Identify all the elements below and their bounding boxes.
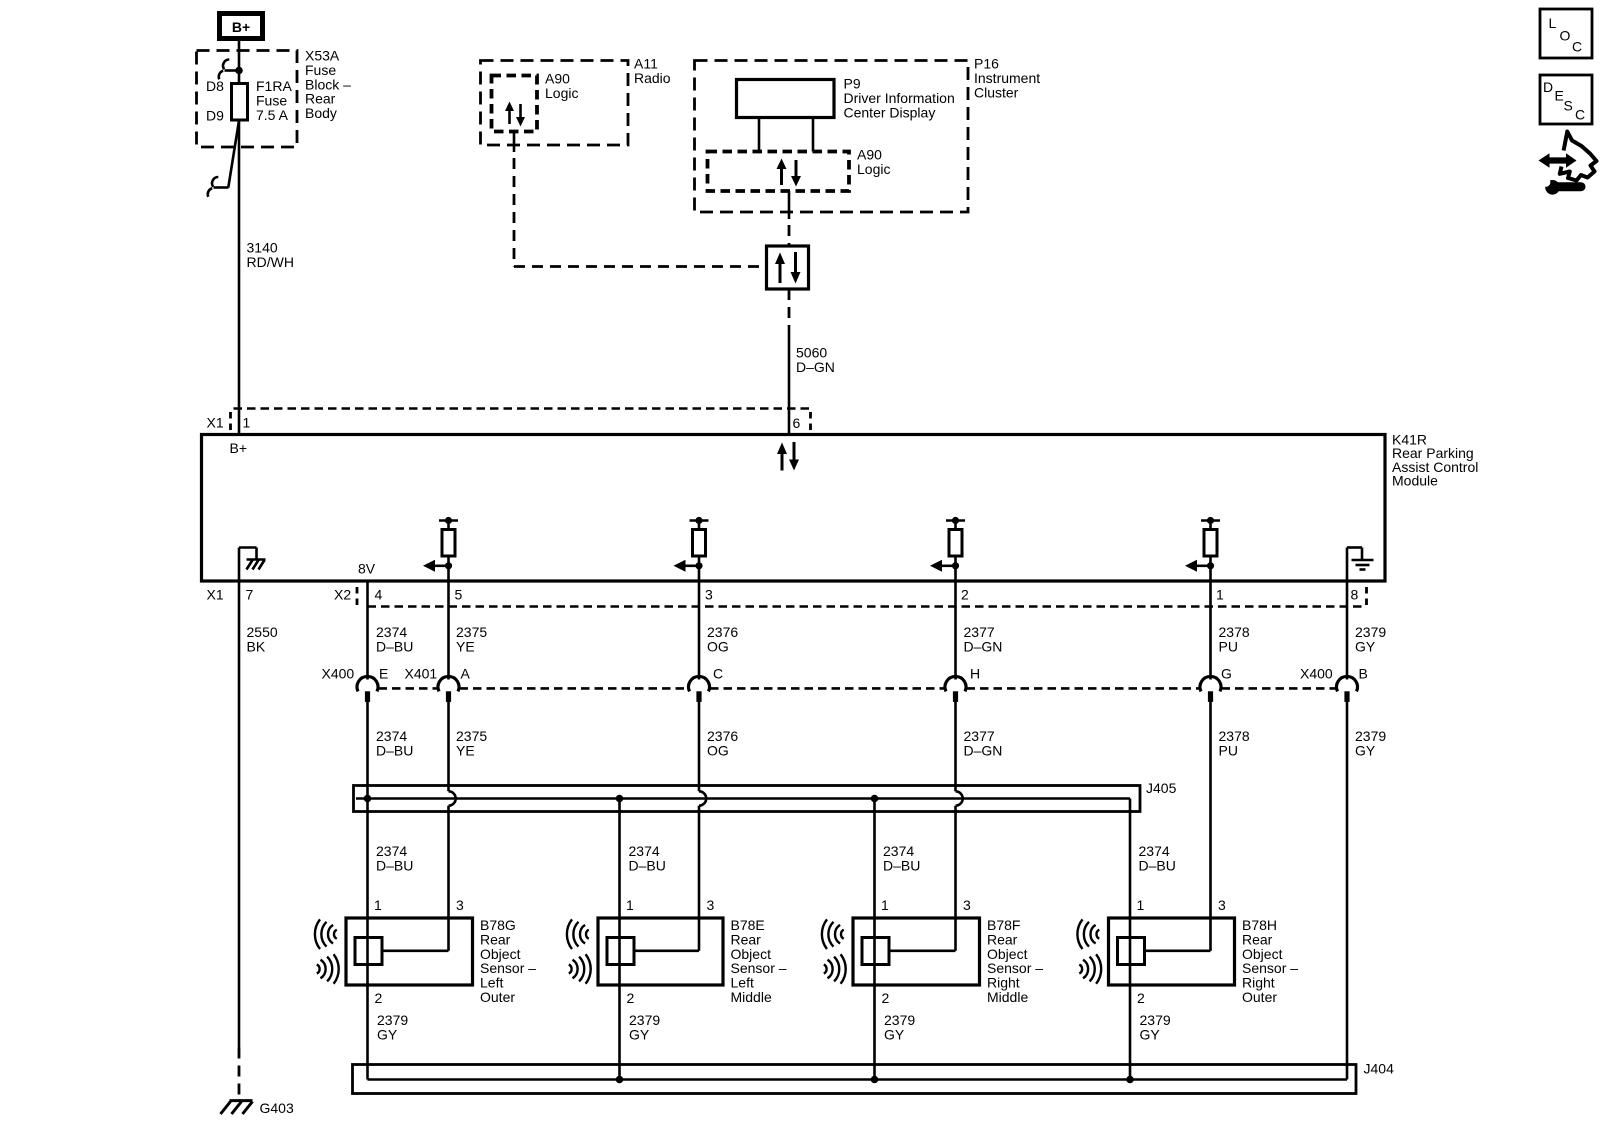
svg-text:BK: BK (247, 638, 266, 654)
svg-text:D–BU: D–BU (376, 638, 413, 654)
wire segment module to connector at x=699 (698, 581, 701, 680)
svg-text:3: 3 (963, 897, 971, 913)
label A11 Radio (634, 56, 671, 86)
splice pack J405 outline (354, 786, 1141, 812)
node B+ battery positive voltage box (220, 14, 263, 39)
sensor B78G transducer square (355, 938, 382, 965)
sensor B78F transducer square (862, 938, 889, 965)
svg-text:H: H (970, 666, 980, 682)
wire sensor B78G pin 1 through pin 2 (366, 918, 369, 985)
wire segment module to connector at x=1347 (1346, 581, 1349, 680)
svg-text:1: 1 (1216, 587, 1224, 603)
svg-text:3: 3 (1218, 897, 1226, 913)
wire label 2374 D-BU (sensor feed) (629, 843, 666, 873)
serial data up arrow inside cluster A90 (777, 159, 787, 186)
signal arrow at resistor R4 (pin X2-1) (1185, 560, 1214, 572)
svg-text:G: G (1221, 666, 1232, 682)
svg-text:S: S (1564, 98, 1573, 114)
wire 2374 D-BU branch J405 to sensor B78H pin 1 (1129, 799, 1132, 919)
ground symbol inside module at pin X2-8 (1347, 548, 1374, 582)
svg-text:5: 5 (455, 587, 463, 603)
fuse block X53A dashed outline (197, 51, 298, 148)
junction dot J404 at sensor B78H (1126, 1076, 1134, 1084)
label B78H Rear Object Sensor (1242, 917, 1298, 1005)
wire B+ to fuse F1RA (238, 41, 241, 84)
component label X53A Fuse Block - Rear Body (305, 48, 351, 122)
wire 2379 GY from connector B down to splice pack J404 (1346, 702, 1349, 1080)
display P9 Driver Information Center Display (737, 80, 835, 118)
wire 2550 BK dashed continuation to G403 (238, 1048, 241, 1101)
wire 2379 GY sensor B78E pin 2 to J404 (618, 985, 621, 1080)
wire 2378 PU from connector G down to sensor B78H pin 3 (1209, 702, 1212, 919)
svg-text:X2: X2 (334, 587, 351, 603)
wire sensor B78E pin 3 internal lead (634, 918, 699, 951)
svg-text:D–BU: D–BU (1139, 857, 1176, 873)
wire label 2379 GY at B78G (377, 1012, 408, 1042)
wire sensor B78E pin 1 through pin 2 (618, 918, 621, 985)
resistor R2 (pin X2-3) internal pull-up (690, 517, 709, 581)
svg-text:D–BU: D–BU (629, 857, 666, 873)
svg-text:7: 7 (246, 587, 254, 603)
wire label 2378 (1219, 624, 1250, 654)
sonar waves of sensor B78F (822, 919, 846, 983)
icon DESC box (1540, 75, 1592, 124)
icon diagnostic connector outline (1560, 132, 1597, 181)
splice pack J404 outline (353, 1065, 1357, 1094)
wire segment module to connector at x=448.5 (447, 581, 450, 680)
svg-text:OG: OG (707, 742, 729, 758)
svg-text:1: 1 (1137, 897, 1145, 913)
svg-text:X400: X400 (322, 666, 355, 682)
wire segment module to connector at x=1210.5 (1209, 581, 1212, 680)
wire radio serial data stub (solid) (513, 132, 516, 153)
svg-text:J405: J405 (1146, 780, 1177, 796)
connector X2 separator (356, 587, 359, 606)
wire segment module to connector at x=955.5 (954, 581, 957, 680)
svg-text:B+: B+ (232, 19, 250, 35)
up arrow inside serial data box (775, 253, 785, 284)
svg-text:Logic: Logic (545, 85, 578, 101)
svg-text:1: 1 (881, 897, 889, 913)
wire label 5060 D-GN (796, 345, 835, 375)
pin 6 separator (809, 412, 812, 431)
pin 8 separator (1365, 587, 1368, 606)
svg-text:D8: D8 (206, 78, 224, 94)
wire label 2375 (456, 624, 487, 654)
svg-text:8: 8 (1351, 587, 1359, 603)
sonar waves of sensor B78E (567, 919, 591, 983)
svg-text:PU: PU (1219, 638, 1238, 654)
svg-text:E: E (379, 666, 388, 682)
svg-text:OG: OG (707, 638, 729, 654)
wire label 2376 (707, 624, 738, 654)
sensor B78E transducer square (607, 938, 634, 965)
svg-text:X1: X1 (207, 415, 224, 431)
svg-text:X401: X401 (405, 666, 438, 682)
svg-text:GY: GY (884, 1026, 905, 1042)
signal arrow at resistor R3 (pin X2-2) (930, 560, 959, 572)
sonar waves of sensor B78G (315, 919, 339, 983)
wire 2374 D-BU branch J405 to sensor B78E pin 1 (618, 799, 621, 919)
wire fuse output down to module pin X1-1 (circuit 3140 RD/WH) (238, 120, 241, 435)
wire 2379 GY sensor B78F pin 2 to J404 (873, 985, 876, 1080)
radio A11 dashed outline (481, 61, 629, 146)
dashed in-line connector harness segment E-A (379, 687, 438, 690)
sonar waves of sensor B78H (1077, 919, 1101, 983)
svg-text:1: 1 (374, 897, 382, 913)
wire sensor B78H pin 3 internal lead (1145, 918, 1211, 951)
wire label 2374 D-BU (sensor feed) (376, 843, 413, 873)
wire cluster serial data dashed down to splice box (788, 191, 791, 219)
wire P9 left pin to A90 logic (758, 118, 761, 152)
svg-text:4: 4 (375, 587, 383, 603)
svg-text:Middle: Middle (987, 989, 1028, 1005)
svg-text:GY: GY (1140, 1026, 1161, 1042)
svg-text:X1: X1 (207, 587, 224, 603)
svg-text:D9: D9 (206, 108, 224, 124)
connector terminal A of X401 (438, 676, 459, 701)
value label F1RA Fuse 7.5 A (256, 78, 292, 123)
wire radio serial data dashed down (513, 158, 516, 267)
wire 2377 D-GN to sensor B78F pin 3 (hops over J405 lead) (956, 702, 963, 919)
svg-text:Outer: Outer (1242, 989, 1277, 1005)
wire label 3140 RD/WH (247, 240, 294, 270)
junction dot J404 at sensor B78E (616, 1076, 624, 1084)
wire segment module to connector at x=367.5 (366, 581, 369, 680)
label K41R Rear Parking Assist Control Module (1392, 431, 1478, 488)
svg-text:D: D (1543, 79, 1553, 95)
junction dot J404 at sensor B78F (871, 1076, 879, 1084)
svg-text:6: 6 (793, 415, 801, 431)
wire sensor B78F pin 1 through pin 2 (873, 918, 876, 985)
wire sensor B78G pin 3 internal lead (382, 918, 449, 951)
svg-text:GY: GY (377, 1026, 398, 1042)
svg-text:X400: X400 (1300, 666, 1333, 682)
svg-text:Logic: Logic (857, 161, 890, 177)
splice pack J404 common lead (368, 1078, 1348, 1081)
wire serial data dashed below box (788, 289, 791, 326)
icon diagnostic double arrow (1539, 153, 1577, 168)
ground symbol inside module at pin X1-7 (239, 548, 266, 582)
svg-text:Radio: Radio (634, 70, 671, 86)
svg-text:E: E (1555, 88, 1564, 104)
wire label 2375 (below connector) (456, 728, 487, 758)
serial data up arrow inside radio A90 (505, 102, 514, 125)
svg-text:D–GN: D–GN (796, 359, 835, 375)
terminal clip D9 (lower fuse terminal, diagonal) (208, 121, 239, 197)
connector terminal H of X401 (945, 676, 966, 701)
wire P9 right pin to A90 logic (812, 118, 815, 152)
wire label 2550 BK (247, 624, 278, 654)
wire label 2374 (below connector) (376, 728, 413, 758)
wire label 2374 (376, 624, 413, 654)
connector terminal G of X401 (1200, 676, 1221, 701)
svg-text:3: 3 (705, 587, 713, 603)
label B78F Rear Object Sensor (987, 917, 1043, 1005)
serial data down arrow inside module at pin 6 (789, 442, 799, 471)
svg-text:D–BU: D–BU (376, 742, 413, 758)
splice pack J405 common lead (356, 797, 1130, 800)
connector terminal B of X400 (1337, 676, 1358, 701)
svg-text:Outer: Outer (480, 989, 515, 1005)
svg-text:D–BU: D–BU (883, 857, 920, 873)
connector terminal E of X400 (357, 676, 378, 701)
dashed in-line connector harness segment C-H (710, 687, 945, 690)
sensor B78H transducer square (1118, 938, 1145, 965)
junction dot J405 at sensor B78G branch (364, 795, 372, 803)
svg-text:A: A (461, 666, 471, 682)
svg-text:7.5 A: 7.5 A (256, 107, 289, 123)
wire label 2379 GY at B78H (1140, 1012, 1171, 1042)
fuse F1RA 7.5A body (232, 84, 248, 121)
svg-text:C: C (1572, 39, 1582, 55)
svg-text:2: 2 (375, 990, 383, 1006)
serial data junction box (767, 246, 809, 289)
wire label 2374 D-BU (sensor feed) (883, 843, 920, 873)
svg-text:YE: YE (456, 638, 475, 654)
down arrow inside serial data box (791, 252, 801, 284)
resistor R1 (pin X2-5) internal pull-up (439, 517, 458, 581)
wire label 2379 GY at B78F (884, 1012, 915, 1042)
terminal clip D8 (upper fuse terminal) (219, 59, 243, 79)
svg-text:Cluster: Cluster (974, 84, 1019, 100)
svg-text:J404: J404 (1364, 1061, 1395, 1077)
svg-text:8V: 8V (358, 561, 376, 577)
wire radio serial data dashed right to splice box (514, 265, 767, 268)
svg-text:C: C (1575, 107, 1585, 123)
svg-text:PU: PU (1219, 742, 1238, 758)
wire label 2379 (1355, 624, 1386, 654)
label A90 Logic (radio) (545, 71, 578, 101)
wire label 2378 (below connector) (1219, 728, 1250, 758)
svg-text:3: 3 (456, 897, 464, 913)
svg-text:Body: Body (305, 105, 337, 121)
wire 2550 BK from pin X1-7 down (solid part) (238, 581, 241, 1048)
svg-text:D–GN: D–GN (964, 742, 1003, 758)
dashed in-line connector harness segment H-G (967, 687, 1200, 690)
connector terminal C of X401 (689, 676, 710, 701)
label P9 Driver Information Center Display (844, 76, 955, 121)
wire label 2377 (below connector) (964, 728, 1003, 758)
svg-text:1: 1 (626, 897, 634, 913)
wire sensor B78H pin 1 through pin 2 (1129, 918, 1132, 985)
wire 2379 GY sensor B78G pin 2 to J404 (366, 985, 369, 1080)
svg-text:2: 2 (961, 587, 969, 603)
svg-text:B: B (1359, 666, 1368, 682)
sensor B78G Rear Object Sensor outline (346, 918, 473, 985)
svg-text:O: O (1560, 28, 1571, 44)
connector X1 separator (top left) (229, 412, 232, 431)
svg-text:YE: YE (456, 742, 475, 758)
wire label 2374 D-BU (sensor feed) (1139, 843, 1176, 873)
wire sensor B78F pin 3 internal lead (889, 918, 956, 951)
svg-text:2: 2 (882, 990, 890, 1006)
label B78E Rear Object Sensor (731, 917, 787, 1005)
wire cluster serial data dashed segment (788, 225, 791, 246)
serial data up arrow inside module at pin 6 (777, 443, 787, 471)
svg-text:G403: G403 (260, 1100, 294, 1116)
junction dot J405 at sensor B78E branch (616, 795, 624, 803)
svg-text:Middle: Middle (731, 989, 772, 1005)
signal arrow at resistor R2 (pin X2-3) (674, 560, 703, 572)
svg-text:3: 3 (707, 897, 715, 913)
resistor R4 (pin X2-1) internal pull-up (1201, 517, 1220, 581)
label B78G Rear Object Sensor (480, 917, 536, 1005)
resistor R3 (pin X2-2) internal pull-up (946, 517, 965, 581)
junction dot J405 at sensor B78F branch (871, 795, 879, 803)
wire label 2377 (964, 624, 1003, 654)
logic block A90 inside cluster (708, 152, 850, 192)
svg-text:GY: GY (1355, 638, 1376, 654)
svg-text:B+: B+ (230, 440, 248, 456)
svg-text:D–BU: D–BU (376, 857, 413, 873)
ground G403 symbol (221, 1101, 253, 1114)
svg-text:Module: Module (1392, 473, 1438, 489)
svg-text:GY: GY (629, 1026, 650, 1042)
icon wrench (1541, 178, 1581, 195)
serial data down arrow inside cluster A90 (791, 160, 801, 187)
svg-text:GY: GY (1355, 742, 1376, 758)
svg-text:2: 2 (627, 990, 635, 1006)
serial data down arrow inside radio A90 (516, 104, 525, 127)
instrument cluster P16 dashed outline (695, 61, 969, 213)
sensor B78E Rear Object Sensor outline (598, 918, 723, 985)
wire label 2379 GY at B78E (629, 1012, 660, 1042)
svg-text:RD/WH: RD/WH (247, 254, 294, 270)
svg-text:D–GN: D–GN (964, 638, 1003, 654)
signal arrow at resistor R1 (pin X2-5) (423, 560, 452, 572)
wire 2375 YE to sensor B78G pin 3 (hops over J405 lead) (449, 702, 456, 919)
wire label 2376 (below connector) (707, 728, 738, 758)
wire label 2379 (below connector) (1355, 728, 1386, 758)
svg-text:1: 1 (243, 415, 251, 431)
wire 2379 GY sensor B78H pin 2 to J404 (1129, 985, 1132, 1080)
icon LOC box (1540, 9, 1592, 58)
dashed connector line X1 top (234, 407, 811, 410)
wire 2374 D-BU from connector E down to splice pack J405 and sensor B78G pin 1 (366, 702, 369, 919)
label P16 Instrument Cluster (974, 56, 1040, 101)
wire 2374 D-BU branch J405 to sensor B78F pin 1 (873, 799, 876, 919)
module K41R Rear Parking Assist Control Module outline (202, 435, 1386, 582)
dashed in-line connector harness segment A-C (460, 687, 689, 690)
sensor B78F Rear Object Sensor outline (853, 918, 980, 985)
svg-text:C: C (713, 666, 723, 682)
wire 5060 D-GN solid to module pin 6 (788, 326, 791, 435)
sensor B78H Rear Object Sensor outline (1109, 918, 1235, 985)
dashed in-line connector harness segment G-B (1222, 687, 1337, 690)
svg-text:Center Display: Center Display (844, 104, 936, 120)
dashed connector line X2 bottom (368, 605, 1367, 608)
logic block A90 inside radio (492, 76, 538, 132)
wire 2376 OG to sensor B78E pin 3 (hops over J405 lead) (699, 702, 706, 919)
svg-text:L: L (1549, 15, 1557, 31)
label A90 Logic (cluster) (857, 147, 890, 177)
svg-text:2: 2 (1137, 990, 1145, 1006)
